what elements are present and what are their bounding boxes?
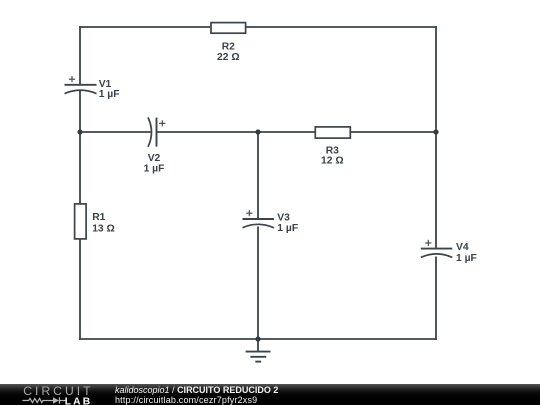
resistor R2 (body) — [211, 23, 246, 34]
svg-text:R1: R1 — [92, 212, 105, 223]
svg-text:1 µF: 1 µF — [277, 223, 298, 234]
wire bottom net (bottom-left corner to bottom-right corner) — [79, 338, 437, 340]
node C junction dot (middle net / right rail) — [433, 129, 438, 134]
wire middle vertical upper (node B down to V3 plus plate) — [257, 132, 259, 219]
svg-text:V2: V2 — [148, 153, 161, 164]
wire middle horizontal left (node A to V2 curved plate) — [80, 131, 151, 133]
value label 1 uF of V1 — [99, 89, 120, 100]
svg-text:22 Ω: 22 Ω — [217, 52, 240, 63]
capacitor V1 (polarized, symbol) — [65, 85, 97, 94]
resistor R1 (body) — [75, 204, 87, 239]
svg-text:R2: R2 — [222, 41, 235, 52]
svg-text:1 µF: 1 µF — [144, 164, 165, 175]
svg-text:12 Ω: 12 Ω — [321, 156, 344, 167]
label V2 (reference designator) — [148, 153, 161, 164]
svg-text:1 µF: 1 µF — [99, 89, 120, 100]
wire left vertical middle (V1 curved plate down to R1 pin 1) — [79, 91, 81, 204]
label R1 (reference designator) — [92, 212, 105, 223]
svg-text:V4: V4 — [456, 242, 469, 253]
label V3 (reference designator) — [277, 212, 290, 223]
plus polarity mark of V4 — [425, 240, 431, 246]
ground — [246, 339, 271, 362]
wire left vertical upper (top corner down to V1 plus plate) — [79, 26, 81, 84]
value label 22 ohm of R2 — [217, 52, 240, 63]
wire left vertical lower (R1 pin 2 down to bottom net) — [79, 239, 81, 340]
resistor R3 (body) — [315, 127, 350, 138]
value label 1 uF of V4 — [456, 253, 477, 264]
value label 12 ohm of R3 — [321, 156, 344, 167]
label V4 (reference designator) — [456, 242, 469, 253]
node B junction dot (middle net / V3 branch) — [255, 129, 260, 134]
value label 1 uF of V3 — [277, 223, 298, 234]
label V1 (reference designator) — [99, 79, 112, 90]
capacitor V2 (polarized, symbol) — [148, 117, 157, 146]
label R3 (reference designator) — [326, 145, 339, 156]
svg-text:LAB: LAB — [65, 396, 92, 405]
svg-text:1 µF: 1 µF — [456, 253, 477, 264]
value label 1 uF of V2 — [144, 164, 165, 175]
capacitor V4 (polarized, symbol) — [421, 249, 453, 258]
wire right vertical lower (V4 curved plate down to bottom net) — [435, 257, 437, 340]
plus polarity mark of V3 — [246, 210, 252, 216]
plus polarity mark of V2 — [159, 120, 165, 126]
CircuitLab logo — [20, 384, 98, 405]
plus polarity mark of V1 — [69, 76, 75, 82]
label R2 (reference designator) — [222, 41, 235, 52]
node D junction dot (bottom net / ground) — [255, 336, 260, 341]
wire top net (top-left corner to top-right corner) — [79, 26, 437, 28]
credits text — [115, 385, 278, 405]
value label 13 ohm of R1 — [92, 223, 115, 234]
wire right vertical upper (top-right corner down to V4 plus plate) — [435, 26, 437, 249]
svg-text:V3: V3 — [277, 212, 290, 223]
svg-text:13 Ω: 13 Ω — [92, 223, 115, 234]
capacitor V3 (polarized, symbol) — [243, 219, 275, 228]
node A junction dot (left rail / middle net) — [77, 129, 82, 134]
wire middle vertical lower (V3 curved plate down to ground node D) — [257, 227, 259, 340]
wire middle horizontal right (V2 plus plate to node C) — [157, 131, 437, 133]
footer bar — [0, 384, 540, 405]
